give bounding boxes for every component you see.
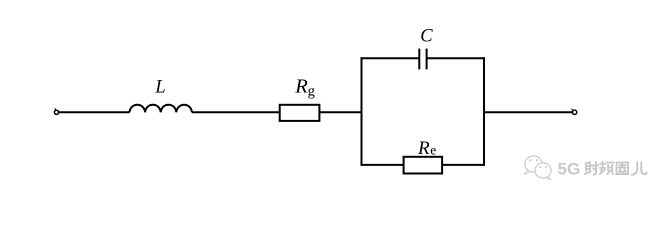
watermark icon (chat bubbles) — [525, 156, 552, 180]
resistor R_e — [404, 157, 443, 174]
svg-text:e: e — [430, 142, 436, 157]
wire: right vertical of parallel branch — [483, 57, 485, 166]
left terminal — [54, 108, 58, 114]
svg-text:g: g — [308, 83, 315, 99]
svg-text:R: R — [417, 138, 430, 159]
wire: top left to capacitor — [361, 57, 420, 59]
wire: capacitor to top right — [427, 57, 485, 59]
watermark char 圈 — [617, 163, 629, 175]
resistor R_g — [280, 105, 320, 121]
svg-text:R: R — [294, 76, 308, 98]
capacitor C — [419, 49, 426, 70]
svg-text:C: C — [420, 27, 433, 47]
wire: R_e to bottom right — [442, 164, 485, 166]
right terminal — [572, 109, 577, 115]
watermark char 儿 — [632, 163, 647, 175]
inductor L — [130, 105, 192, 113]
wire: bottom left to R_e — [361, 164, 404, 166]
wire: left vertical of parallel branch — [361, 57, 363, 166]
watermark char 射 — [585, 162, 598, 175]
svg-text:L: L — [154, 78, 165, 98]
wire — [192, 111, 280, 113]
svg-text:5G: 5G — [558, 159, 581, 178]
wire: output — [484, 111, 572, 113]
wire — [319, 111, 361, 113]
watermark char 频 — [600, 162, 614, 175]
wire — [59, 111, 130, 113]
